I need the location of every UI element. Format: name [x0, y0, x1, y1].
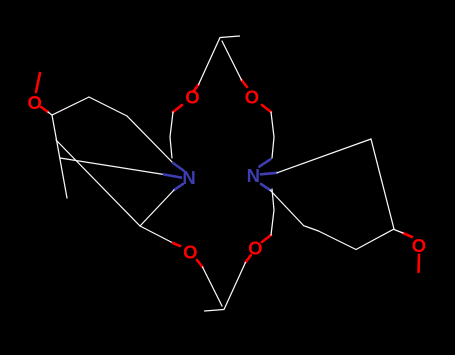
edge Fp: [371, 139, 394, 229]
O1 vert sg: [271, 112, 274, 158]
svg-text:O: O: [183, 242, 197, 263]
svg-text:O: O: [245, 86, 259, 107]
diag D1 white: [127, 116, 173, 163]
O1 vert c2: [271, 189, 274, 235]
edge R1p-R2p: [356, 229, 394, 250]
bond Oa-R1: [41, 107, 48, 112]
link VR-R3p: [305, 226, 319, 231]
methyl A: [36, 73, 40, 92]
edge F: [52, 115, 67, 198]
svg-text:O: O: [28, 92, 42, 113]
svg-text:O: O: [248, 238, 262, 259]
Obl-Q1 white: [203, 267, 223, 306]
W white: [60, 158, 164, 175]
edge R1-R2: [48, 97, 89, 115]
svg-text:N: N: [247, 165, 260, 186]
diag D1 blue: [173, 163, 184, 171]
Obr-Q2 white c2: [199, 38, 221, 85]
svg-text:O: O: [185, 86, 199, 107]
Obr-Q2 white: [224, 262, 246, 309]
O1 vert: [170, 112, 173, 158]
bond Ob-R1p w: [394, 230, 403, 234]
Q1-Q2 c2: [221, 36, 240, 38]
Obl-Q1 red c2: [242, 80, 248, 87]
O1 stub sg: [262, 105, 271, 112]
SW blue sg: [261, 184, 270, 190]
SW blue: [174, 184, 183, 190]
SW white sg: [270, 190, 304, 226]
Obl-Q1 red: [197, 260, 203, 267]
E blue: [261, 173, 277, 175]
VL-Obl red: [173, 243, 180, 246]
Q1-Q2: [205, 310, 224, 312]
W blue: [164, 175, 181, 178]
bond Ob-R1p: [403, 233, 412, 237]
Obr-Q2 red c2: [193, 85, 198, 92]
edge R2p-R3p: [319, 231, 357, 250]
Obl-Q1 white c2: [222, 41, 242, 80]
svg-text:N: N: [182, 167, 195, 188]
edge R2-R3: [89, 97, 127, 116]
diag G: [56, 140, 140, 226]
E white: [277, 139, 371, 173]
svg-text:O: O: [412, 235, 426, 256]
NE blue: [259, 159, 270, 166]
O1 stub: [173, 105, 182, 112]
Obr-Q2 red: [246, 255, 251, 262]
VL-Obl white: [140, 226, 173, 243]
methyl B: [417, 255, 420, 273]
SW white: [140, 190, 174, 226]
O1 stub c2: [262, 235, 271, 242]
